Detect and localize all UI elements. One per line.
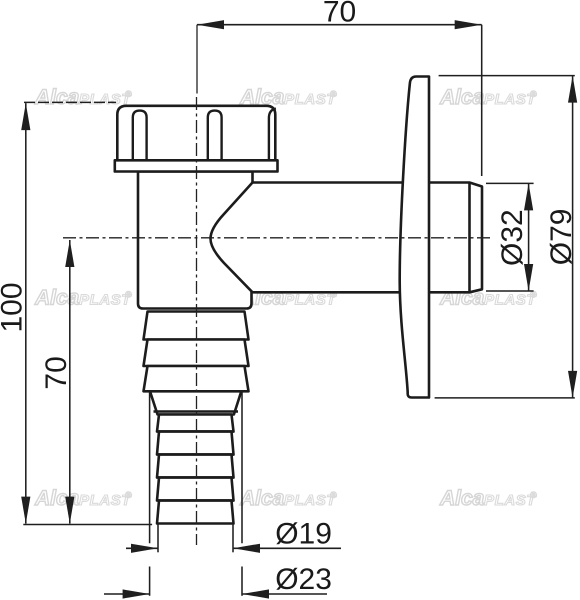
- svg-text:Ø19: Ø19: [275, 517, 332, 550]
- svg-text:70: 70: [40, 356, 73, 389]
- svg-text:Ø32: Ø32: [496, 209, 529, 266]
- svg-text:Ø23: Ø23: [275, 563, 332, 596]
- svg-text:70: 70: [323, 0, 356, 29]
- svg-text:100: 100: [0, 282, 29, 332]
- svg-text:Ø79: Ø79: [545, 209, 578, 266]
